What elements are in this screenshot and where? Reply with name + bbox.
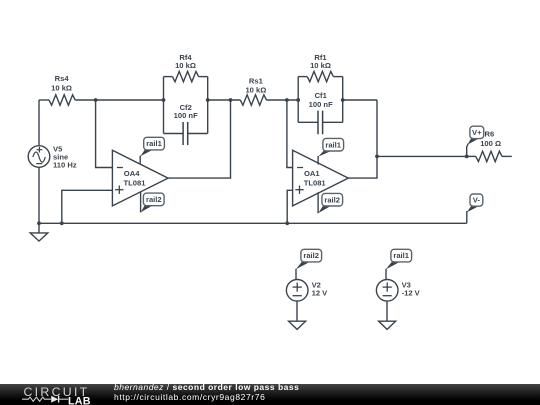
voltage source V2 12V <box>286 269 308 321</box>
node: R6 input junction <box>465 155 469 159</box>
ground (V2) <box>289 321 306 329</box>
wire: loop2 right vertical <box>342 77 344 123</box>
svg-text:TL081: TL081 <box>124 179 147 188</box>
svg-text:100 nF: 100 nF <box>174 111 198 120</box>
svg-text:100 nF: 100 nF <box>309 100 333 109</box>
svg-text:rail2: rail2 <box>324 195 340 204</box>
svg-text:TL081: TL081 <box>304 179 327 188</box>
node: loop2 right on main wire <box>341 98 345 102</box>
svg-text:rail2: rail2 <box>146 195 162 204</box>
V- flag <box>467 194 483 223</box>
node: loop2 left on main wire <box>296 98 300 102</box>
wire: OA4 output to main wire <box>168 100 230 178</box>
svg-text:-12 V: -12 V <box>402 289 421 298</box>
svg-text:Rs4: Rs4 <box>55 74 70 83</box>
op-amp OA4 TL081 <box>112 150 168 206</box>
svg-text:10 kΩ: 10 kΩ <box>175 61 196 70</box>
svg-text:10 kΩ: 10 kΩ <box>245 86 266 95</box>
resistor Rs4 <box>49 74 75 105</box>
node: OA1 output tap <box>375 155 379 159</box>
node: loop1 right on main wire <box>206 98 210 102</box>
wire: junction down to OA1 inverting input <box>287 100 293 168</box>
resistor Rf1 <box>298 53 343 82</box>
svg-text:10 kΩ: 10 kΩ <box>51 83 72 92</box>
wire: junction down to OA4 inverting input <box>96 100 113 168</box>
V+ flag <box>467 126 484 156</box>
voltage source V3 -12V <box>376 269 398 321</box>
wire: loop2 right to output vertical <box>343 99 377 101</box>
svg-text:V+: V+ <box>472 128 482 137</box>
rail2 flag (OA1) <box>318 193 342 213</box>
node: ground junction <box>37 221 41 225</box>
node: OA1 + gnd junction <box>285 221 289 225</box>
rail2 flag (V2) <box>296 249 322 269</box>
svg-text:rail1: rail1 <box>146 139 162 148</box>
ground <box>38 223 40 233</box>
wire: loop1 right vertical <box>207 77 209 134</box>
node: OA4 + gnd junction <box>60 221 64 225</box>
rail1 flag (OA1) <box>318 138 343 156</box>
wire: loop2 left vertical <box>297 77 299 123</box>
wire: V5 to Rs4 and main node <box>39 99 164 101</box>
capacitor Cf1 <box>298 91 343 134</box>
wire: ground to OA1 non-inverting input <box>287 190 292 223</box>
node: Rs4/OA4 inverting junction <box>94 98 98 102</box>
wire: Rs1 to loop2 <box>267 99 299 101</box>
rail2 flag (OA4) <box>141 193 164 212</box>
svg-text:Cf1: Cf1 <box>315 91 328 100</box>
wire: loop1 left vertical <box>163 77 165 134</box>
resistor Rs1 <box>240 76 266 105</box>
svg-text:OA4: OA4 <box>124 169 140 178</box>
svg-text:rail1: rail1 <box>393 251 409 260</box>
svg-text:OA1: OA1 <box>304 169 320 178</box>
wire: OA1 output feedback vertical <box>348 100 377 178</box>
svg-text:Rs1: Rs1 <box>249 76 264 85</box>
pin: OA1 V- stub <box>317 192 319 213</box>
wire: bottom ground rail <box>39 222 467 224</box>
pin: OA4 V+ stub <box>139 156 141 165</box>
pin: OA4 V- stub <box>140 192 142 212</box>
wire: output to R6 <box>377 155 467 157</box>
svg-text:110 Hz: 110 Hz <box>53 161 77 170</box>
svg-text:V-: V- <box>473 196 481 205</box>
svg-text:rail2: rail2 <box>303 251 319 260</box>
node: loop1 left on main wire <box>162 98 166 102</box>
wire: ground to OA4 non-inverting input <box>62 190 113 223</box>
node: OA1 inverting junction <box>285 98 289 102</box>
svg-text:10 kΩ: 10 kΩ <box>310 61 331 70</box>
node: OA4 output on main wire <box>229 98 233 102</box>
rail1 flag (OA4) <box>140 137 164 156</box>
label V3 -12 V <box>402 280 421 297</box>
svg-text:R6: R6 <box>485 129 495 138</box>
svg-text:100 Ω: 100 Ω <box>480 139 501 148</box>
resistor Rf4 <box>164 53 208 82</box>
wire: main wire loop1-right to Rs1 <box>208 99 241 101</box>
voltage source V5 <box>28 100 50 223</box>
label V5 sine 110 Hz <box>53 144 77 169</box>
op-amp OA1 TL081 <box>293 150 349 206</box>
pin: OA1 V+ stub <box>317 156 319 165</box>
svg-text:12 V: 12 V <box>312 289 329 298</box>
rail1 flag (V3) <box>386 249 412 269</box>
label V2 12 V <box>312 280 329 297</box>
ground (V3) <box>379 321 396 329</box>
capacitor Cf2 <box>164 103 208 145</box>
CircuitLab logo <box>22 385 91 405</box>
svg-text:LAB: LAB <box>68 395 91 405</box>
svg-text:rail1: rail1 <box>325 140 341 149</box>
resistor R6 <box>467 129 512 161</box>
